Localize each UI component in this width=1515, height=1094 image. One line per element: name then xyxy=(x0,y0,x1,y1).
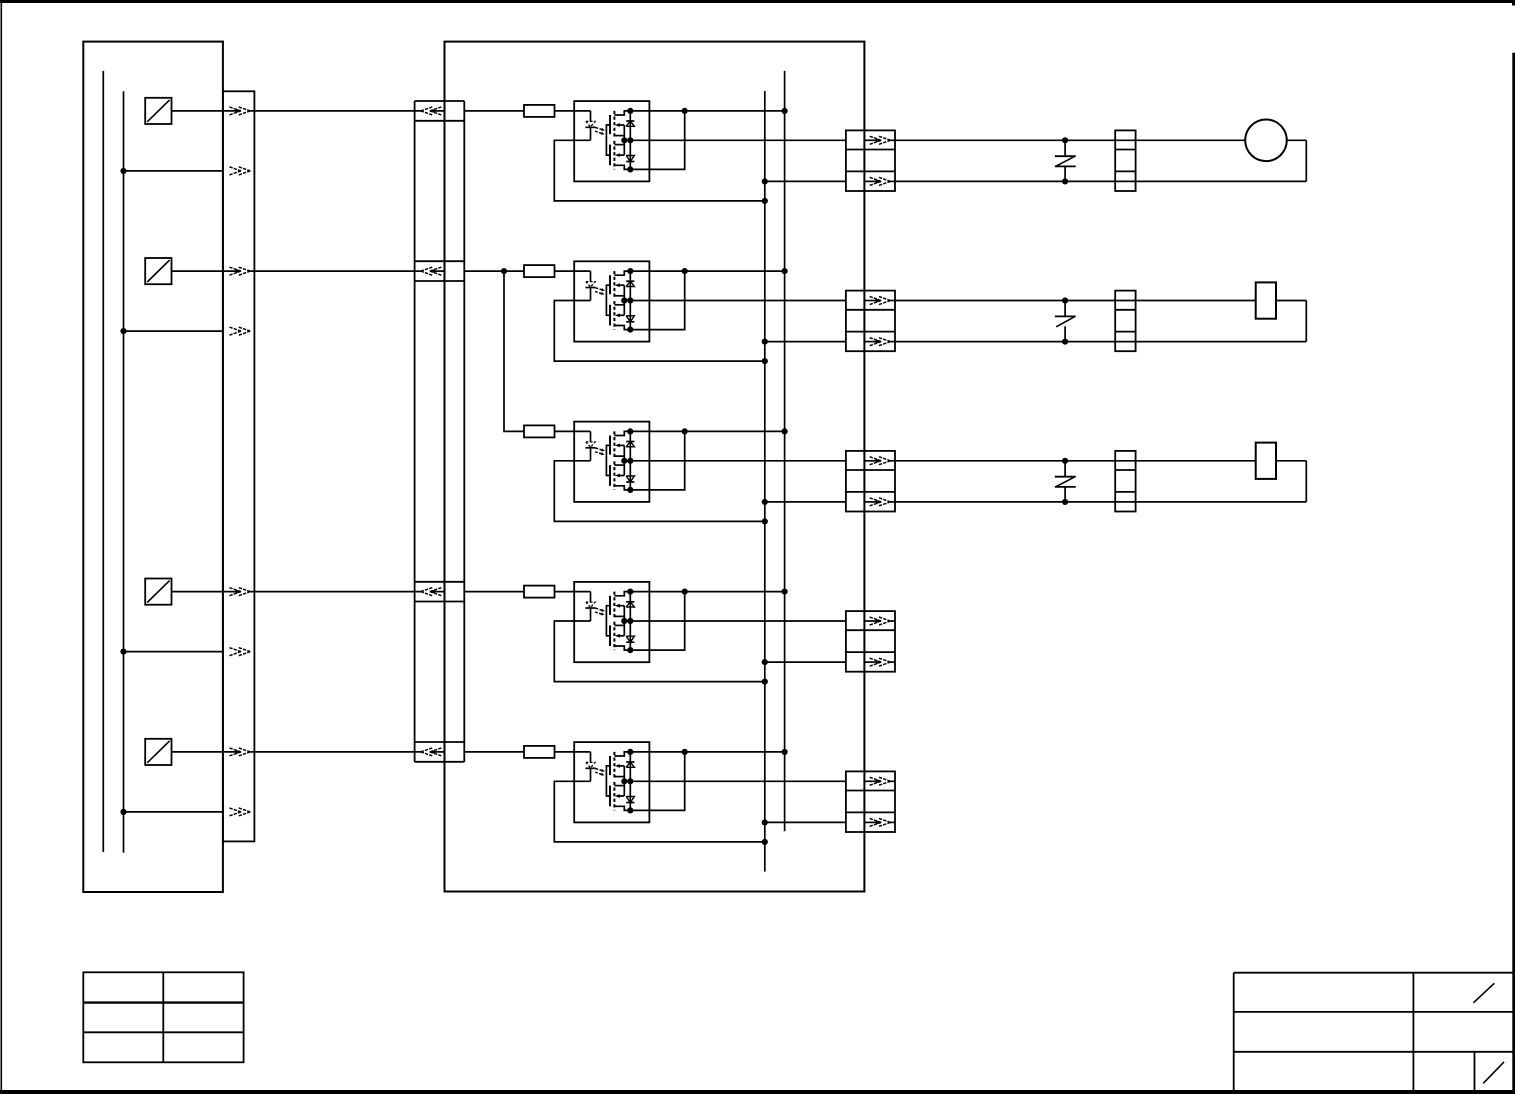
junction U3 source right xyxy=(627,458,633,464)
junction U5 bottom drain xyxy=(627,807,633,813)
return wire stage 5 xyxy=(554,781,765,842)
interruption arrow X1 out (signal 5) xyxy=(229,748,250,756)
mid rail wire stage 4 xyxy=(624,620,846,622)
MOSFET Q5b gate plate xyxy=(609,786,611,807)
junction on bus M (return 4) xyxy=(120,649,126,655)
resistor R1 xyxy=(524,105,555,117)
MOSFET Q4a gate plate xyxy=(609,596,611,615)
light arrow 1 U4 xyxy=(596,608,605,611)
junction U3 source left xyxy=(621,458,627,464)
relay coil K3 xyxy=(1256,443,1276,479)
solid-state relay U4 outline xyxy=(574,582,649,662)
junction top rail / link 3 xyxy=(682,428,688,434)
return wire stage 3 xyxy=(554,461,765,522)
LED D3 cathode bar xyxy=(585,447,595,449)
wire R4 to opto U4 xyxy=(555,591,591,593)
common source rail U2 xyxy=(623,285,625,315)
wire return 4 to X1 xyxy=(124,651,223,653)
body diode D2a xyxy=(626,281,634,286)
junction on bus M (return 2) xyxy=(120,328,126,334)
link wire stage 1 xyxy=(630,111,684,169)
output connector X3 divider 2 xyxy=(846,170,895,172)
terminal strip X8 outline xyxy=(1115,130,1135,191)
return wire stage 4 xyxy=(554,621,765,682)
junction bottom rail / rail A 2 xyxy=(762,339,768,345)
wire M1 to return xyxy=(1287,139,1307,141)
interruption arrow X7 pin 2 xyxy=(864,818,895,826)
junction bottom rail / rail A 3 xyxy=(762,499,768,505)
suppressor F2 bottom junction xyxy=(1062,339,1068,345)
title block top line xyxy=(1234,972,1513,974)
output connector X5 divider 2 xyxy=(846,491,895,493)
wire inside X2 cell 5 xyxy=(434,751,444,753)
light arrow 1 U1 xyxy=(596,128,605,131)
LED D5 anode lead xyxy=(590,752,592,763)
wire R5 to opto U5 xyxy=(555,751,591,753)
MOSFET Q5b body stub arrow xyxy=(615,794,624,798)
body diode D3b xyxy=(626,476,634,482)
wire return 1 to X1 xyxy=(124,170,223,172)
MOSFET Q2a gate plate xyxy=(609,275,611,294)
junction return / rail A 2 xyxy=(762,358,768,364)
load bottom wire stage 2 xyxy=(895,341,1306,343)
MOSFET Q5b source stub xyxy=(614,785,624,787)
MOSFET Q3a source stub xyxy=(614,455,624,457)
output connector X5 outline xyxy=(846,451,895,512)
MOSFET Q1b drain stub xyxy=(614,165,630,169)
MOSFET Q5b channel xyxy=(613,782,615,811)
wire X2 to resistor R4 xyxy=(464,591,524,593)
junction top rail / link 1 xyxy=(682,108,688,114)
bottom rail wire stage 3 xyxy=(765,501,846,503)
input channel symbol B5 square xyxy=(145,739,171,765)
output connector X4 divider 1 xyxy=(846,309,895,311)
internal bus rail B (supply) xyxy=(784,71,786,831)
body diode D4a xyxy=(626,602,634,607)
load bottom wire stage 3 xyxy=(895,501,1306,503)
bottom rail wire stage 2 xyxy=(765,341,846,343)
light arrow 2 U4 xyxy=(595,612,604,615)
node feeding stage 3 xyxy=(501,268,507,274)
MOSFET Q5a source stub xyxy=(614,776,624,778)
plug connector X2 cell 4 bottom line xyxy=(415,601,465,603)
suppressor F3 bottom junction xyxy=(1062,499,1068,505)
interruption arrow X2 in (signal 4) xyxy=(421,588,442,596)
interruption arrow X4 pin 2 xyxy=(864,338,895,346)
interruption arrow X1 out (signal 2) xyxy=(229,267,250,275)
terminal strip X8 divider 2 xyxy=(1115,170,1135,172)
plug connector X2 cell 5 top line xyxy=(415,741,465,743)
junction U4 top drain xyxy=(627,589,633,595)
solid-state relay U1 outline xyxy=(574,101,649,181)
bottom rail wire stage 5 xyxy=(765,821,846,823)
terminal strip X9 divider 2 xyxy=(1115,331,1135,333)
junction top rail / link 5 xyxy=(682,749,688,755)
input channel symbol B4 square xyxy=(145,579,171,605)
LED D3 anode lead xyxy=(590,431,592,442)
output connector X4 divider 2 xyxy=(846,331,895,333)
wire R2 to opto U2 xyxy=(555,270,591,272)
MOSFET Q4a source stub xyxy=(614,615,624,617)
LED D4 cathode bar xyxy=(585,607,595,609)
junction U5 source left xyxy=(621,778,627,784)
title block row line 2 xyxy=(1234,1051,1513,1053)
resistor R4 xyxy=(524,586,555,598)
plug connector X2 cell 5 bottom line xyxy=(415,761,465,763)
load top wire stage 1 xyxy=(895,139,1245,141)
junction U1 bottom drain xyxy=(627,166,633,172)
solid-state relay U3 outline xyxy=(574,422,649,502)
plug connector X2 left edge xyxy=(414,101,416,762)
plug connector X2 cell 2 top line xyxy=(415,260,465,262)
junction U4 source right xyxy=(627,618,633,624)
interruption arrow X5 pin 1 xyxy=(864,457,895,465)
junction top rail / rail B 1 xyxy=(782,108,788,114)
light arrow 1 U3 xyxy=(596,448,605,451)
border frame top edge xyxy=(0,0,1515,3)
MOSFET Q3b drain stub xyxy=(614,486,630,490)
link wire stage 5 xyxy=(630,752,684,811)
LED D2 anode lead xyxy=(590,271,592,282)
interruption arrow X5 pin 2 xyxy=(864,498,895,506)
junction U5 top drain xyxy=(627,749,633,755)
junction U2 top drain xyxy=(627,268,633,274)
junction return / rail A 1 xyxy=(762,198,768,204)
junction U2 source right xyxy=(627,297,633,303)
wire K2 to return xyxy=(1276,300,1306,302)
mid rail wire stage 2 xyxy=(624,300,846,302)
MOSFET Q3a channel xyxy=(613,431,615,458)
input channel symbol B4 diagonal xyxy=(147,581,169,603)
junction top rail / link 4 xyxy=(682,589,688,595)
light arrow 2 U2 xyxy=(595,292,604,295)
top rail wire stage 2 xyxy=(630,270,784,272)
junction U5 source right xyxy=(627,778,633,784)
output connector X6 divider 1 xyxy=(846,629,895,631)
junction top rail / rail B 3 xyxy=(782,428,788,434)
interruption chevrons X1 (return 1) xyxy=(229,167,250,175)
bottom rail wire stage 4 xyxy=(765,661,846,663)
LED D3 cathode lead xyxy=(590,448,592,461)
body diode D2b xyxy=(626,316,634,322)
MOSFET Q1b source stub xyxy=(614,144,624,146)
return wire stage 2 xyxy=(554,301,765,362)
wire R1 to opto U1 xyxy=(555,110,591,112)
border frame right edge xyxy=(1512,53,1515,1094)
surge suppressor F3 xyxy=(1055,461,1076,502)
MOSFET Q1a body stub arrow xyxy=(615,123,624,127)
input device block A1 outline xyxy=(83,42,223,892)
output connector X6 outline xyxy=(846,611,895,672)
photo-gate bracket U2 xyxy=(606,285,610,315)
wire B4 to X1 xyxy=(172,591,236,593)
plug connector X2 cell 1 bottom line xyxy=(415,120,465,122)
junction top rail / rail B 4 xyxy=(782,589,788,595)
LED D5 triangle xyxy=(586,762,595,767)
solid-state relay U5 outline xyxy=(574,742,649,822)
LED D5 cathode lead xyxy=(590,768,592,781)
LED D2 cathode lead xyxy=(590,288,592,301)
MOSFET Q3a body stub arrow xyxy=(615,444,624,448)
LED D1 triangle xyxy=(586,121,595,126)
interruption arrow X4 pin 1 xyxy=(864,297,895,305)
wire X1 to X2 (signal 5) xyxy=(250,751,420,753)
title block left line xyxy=(1233,973,1235,1090)
junction U1 source left xyxy=(621,137,627,143)
MOSFET Q5b drain stub xyxy=(614,806,630,810)
MOSFET Q4a channel xyxy=(613,592,615,619)
drain terminal line U1 xyxy=(629,111,631,169)
MOSFET Q3a gate plate xyxy=(609,436,611,455)
junction on bus M (return 1) xyxy=(120,168,126,174)
wire return 5 to X1 xyxy=(124,811,223,813)
load top wire stage 2 xyxy=(895,300,1256,302)
photo-gate bracket U1 xyxy=(606,125,610,155)
input channel symbol B2 square xyxy=(145,258,171,284)
load return riser stage 1 xyxy=(1305,140,1307,181)
border frame bottom edge xyxy=(0,1090,1515,1094)
link wire stage 4 xyxy=(630,592,684,651)
junction on bus M (return 5) xyxy=(120,809,126,815)
MOSFET Q3b body stub arrow xyxy=(615,474,624,478)
junction U4 bottom drain xyxy=(627,647,633,653)
junction U3 top drain xyxy=(627,428,633,434)
MOSFET Q4b body stub arrow xyxy=(615,634,624,638)
resistor R3 xyxy=(524,425,555,437)
junction U1 source right xyxy=(627,137,633,143)
feed wire from stage 2 node xyxy=(504,271,524,431)
junction return / rail A 4 xyxy=(762,679,768,685)
interruption chevrons X1 (return 4) xyxy=(229,648,250,656)
suppressor F1 bottom junction xyxy=(1062,178,1068,184)
output connector X7 outline xyxy=(846,771,895,832)
MOSFET Q2b body stub arrow xyxy=(615,313,624,317)
interruption chevrons X1 (return 2) xyxy=(229,327,250,335)
MOSFET Q3a drain stub xyxy=(614,431,630,435)
body diode D5a xyxy=(626,762,634,767)
title block sub divider xyxy=(1474,1052,1476,1090)
wire inside X2 cell 4 xyxy=(434,591,444,593)
wire X1 to X2 (signal 2) xyxy=(250,270,420,272)
interruption arrow X1 out (signal 1) xyxy=(229,107,250,115)
wire X2 to resistor R2 xyxy=(464,270,524,272)
input channel symbol B5 diagonal xyxy=(147,741,169,763)
MOSFET Q3b channel xyxy=(613,461,615,490)
border frame left edge xyxy=(0,3,2,1090)
wire B1 to X1 xyxy=(172,110,236,112)
LED D2 triangle xyxy=(586,282,595,287)
drain terminal line U3 xyxy=(629,431,631,490)
MOSFET Q2b gate plate xyxy=(609,305,611,326)
MOSFET Q4a drain stub xyxy=(614,592,630,596)
revision table row line 1 xyxy=(83,1001,243,1003)
junction top rail / rail B 2 xyxy=(782,268,788,274)
link wire stage 2 xyxy=(630,271,684,330)
load return riser stage 3 xyxy=(1305,461,1307,502)
interruption arrow X3 pin 2 xyxy=(864,177,895,185)
revision table column divider xyxy=(162,972,164,1062)
junction top rail / rail B 5 xyxy=(782,749,788,755)
relay coil K2 xyxy=(1256,282,1276,318)
junction bottom rail / rail A 5 xyxy=(762,819,768,825)
surge suppressor F1 xyxy=(1055,140,1076,181)
revision table outline xyxy=(83,972,243,1062)
solid-state relay U2 outline xyxy=(574,261,649,341)
interruption arrow X2 in (signal 5) xyxy=(421,748,442,756)
junction U1 top drain xyxy=(627,108,633,114)
revision table row line 2 xyxy=(83,1031,243,1033)
junction U4 source left xyxy=(621,618,627,624)
MOSFET Q4b drain stub xyxy=(614,646,630,650)
output module block A2 outline xyxy=(445,42,865,892)
input channel symbol B2 diagonal xyxy=(147,260,169,282)
MOSFET Q2b source stub xyxy=(614,304,624,306)
MOSFET Q1a channel xyxy=(613,111,615,138)
top rail wire stage 1 xyxy=(630,110,784,112)
bottom rail wire stage 1 xyxy=(765,180,846,182)
junction U3 bottom drain xyxy=(627,487,633,493)
output connector X6 divider 2 xyxy=(846,651,895,653)
MOSFET Q5a drain stub xyxy=(614,752,630,756)
wire X1 to X2 (signal 1) xyxy=(250,110,420,112)
title block slash mark 1 xyxy=(1473,983,1494,1003)
MOSFET Q1b channel xyxy=(613,141,615,170)
output connector X4 outline xyxy=(846,291,895,352)
output connector X7 divider 1 xyxy=(846,790,895,792)
border frame top-right tick xyxy=(1512,0,1515,6)
MOSFET Q5a body stub arrow xyxy=(615,764,624,768)
interruption arrow X1 out (signal 4) xyxy=(229,588,250,596)
wire R3 to opto U3 xyxy=(555,430,591,432)
link wire stage 3 xyxy=(630,431,684,490)
photo-gate bracket U3 xyxy=(606,445,610,475)
wire inside X2 cell 2 xyxy=(434,270,444,272)
return wire stage 1 xyxy=(554,140,765,201)
body diode D3a xyxy=(626,442,634,447)
output connector X5 divider 1 xyxy=(846,469,895,471)
junction U2 source left xyxy=(621,297,627,303)
wire B2 to X1 xyxy=(172,270,236,272)
MOSFET Q2a body stub arrow xyxy=(615,283,624,287)
interruption arrow X6 pin 2 xyxy=(864,658,895,666)
MOSFET Q4b source stub xyxy=(614,624,624,626)
MOSFET Q2b drain stub xyxy=(614,326,630,330)
wire X2 to resistor R1 xyxy=(464,110,524,112)
junction bottom rail / rail A 4 xyxy=(762,659,768,665)
LED D4 anode lead xyxy=(590,592,592,603)
top rail wire stage 4 xyxy=(630,591,784,593)
MOSFET Q4b channel xyxy=(613,622,615,651)
output connector X7 divider 2 xyxy=(846,811,895,813)
terminal strip X10 divider 2 xyxy=(1115,491,1135,493)
MOSFET Q5a channel xyxy=(613,752,615,779)
LED D4 cathode lead xyxy=(590,608,592,621)
output connector X3 divider 1 xyxy=(846,149,895,151)
MOSFET Q5a gate plate xyxy=(609,756,611,775)
drain terminal line U5 xyxy=(629,752,631,811)
photo-gate bracket U5 xyxy=(606,766,610,796)
MOSFET Q3b source stub xyxy=(614,464,624,466)
wire K3 to return xyxy=(1276,460,1306,462)
LED D4 triangle xyxy=(586,602,595,607)
mid rail wire stage 1 xyxy=(624,139,846,141)
top rail wire stage 3 xyxy=(630,430,784,432)
suppressor F2 top junction xyxy=(1062,297,1068,303)
MOSFET Q2b channel xyxy=(613,301,615,330)
body diode D1a xyxy=(626,121,634,126)
suppressor F1 top junction xyxy=(1062,137,1068,143)
surge suppressor F2 xyxy=(1055,301,1076,342)
bus line M inside A1 xyxy=(123,91,125,852)
interruption arrow X2 in (signal 1) xyxy=(421,107,442,115)
input channel symbol B1 square xyxy=(145,98,171,124)
LED D5 cathode bar xyxy=(585,767,595,769)
terminal strip X1 outline xyxy=(223,91,255,841)
LED D2 cathode bar xyxy=(585,287,595,289)
light arrow 1 U2 xyxy=(596,288,605,291)
wire B5 to X1 xyxy=(172,751,236,753)
terminal strip X10 divider 1 xyxy=(1115,469,1135,471)
resistor R5 xyxy=(524,746,555,758)
light arrow 2 U5 xyxy=(595,772,604,775)
input channel symbol B1 diagonal xyxy=(147,100,169,122)
interruption arrow X3 pin 1 xyxy=(864,136,895,144)
MOSFET Q1a drain stub xyxy=(614,111,630,115)
wire X1 to X2 (signal 4) xyxy=(250,591,420,593)
mid rail wire stage 5 xyxy=(624,780,846,782)
drain terminal line U2 xyxy=(629,271,631,330)
common source rail U4 xyxy=(623,606,625,636)
LED D1 cathode lead xyxy=(590,127,592,140)
body diode D4b xyxy=(626,636,634,642)
internal bus rail A (return) xyxy=(764,91,766,872)
LED D3 triangle xyxy=(586,442,595,447)
LED D1 cathode bar xyxy=(585,126,595,128)
wire inside X2 cell 1 xyxy=(434,110,444,112)
MOSFET Q4a body stub arrow xyxy=(615,604,624,608)
load top wire stage 3 xyxy=(895,460,1256,462)
suppressor F3 top junction xyxy=(1062,458,1068,464)
load bottom wire stage 1 xyxy=(895,180,1306,182)
light arrow 2 U1 xyxy=(595,131,604,135)
MOSFET Q1b gate plate xyxy=(609,145,611,166)
plug connector X2 right edge xyxy=(463,101,465,762)
light arrow 2 U3 xyxy=(595,452,604,455)
common source rail U5 xyxy=(623,766,625,796)
interruption arrow X2 in (signal 2) xyxy=(421,267,442,275)
bus line L+ inside A1 xyxy=(102,71,104,852)
MOSFET Q1a gate plate xyxy=(609,115,611,134)
plug connector X2 cell 4 top line xyxy=(415,581,465,583)
interruption arrow X6 pin 1 xyxy=(864,617,895,625)
MOSFET Q1b body stub arrow xyxy=(615,153,624,157)
motor/lamp M1 circle xyxy=(1245,120,1287,162)
junction return / rail A 5 xyxy=(762,839,768,845)
interruption chevrons X1 (return 5) xyxy=(229,808,250,816)
MOSFET Q1a source stub xyxy=(614,135,624,137)
interruption arrow X7 pin 1 xyxy=(864,777,895,785)
plug connector X2 cell 2 bottom line xyxy=(415,280,465,282)
junction bottom rail / rail A 1 xyxy=(762,178,768,184)
body diode D5b xyxy=(626,797,634,803)
photo-gate bracket U4 xyxy=(606,606,610,636)
MOSFET Q4b gate plate xyxy=(609,625,611,646)
MOSFET Q2a source stub xyxy=(614,295,624,297)
resistor R2 xyxy=(524,265,555,277)
plug connector X2 cell 1 top line xyxy=(415,100,465,102)
title block row line 1 xyxy=(1234,1011,1513,1013)
terminal strip X9 divider 1 xyxy=(1115,309,1135,311)
